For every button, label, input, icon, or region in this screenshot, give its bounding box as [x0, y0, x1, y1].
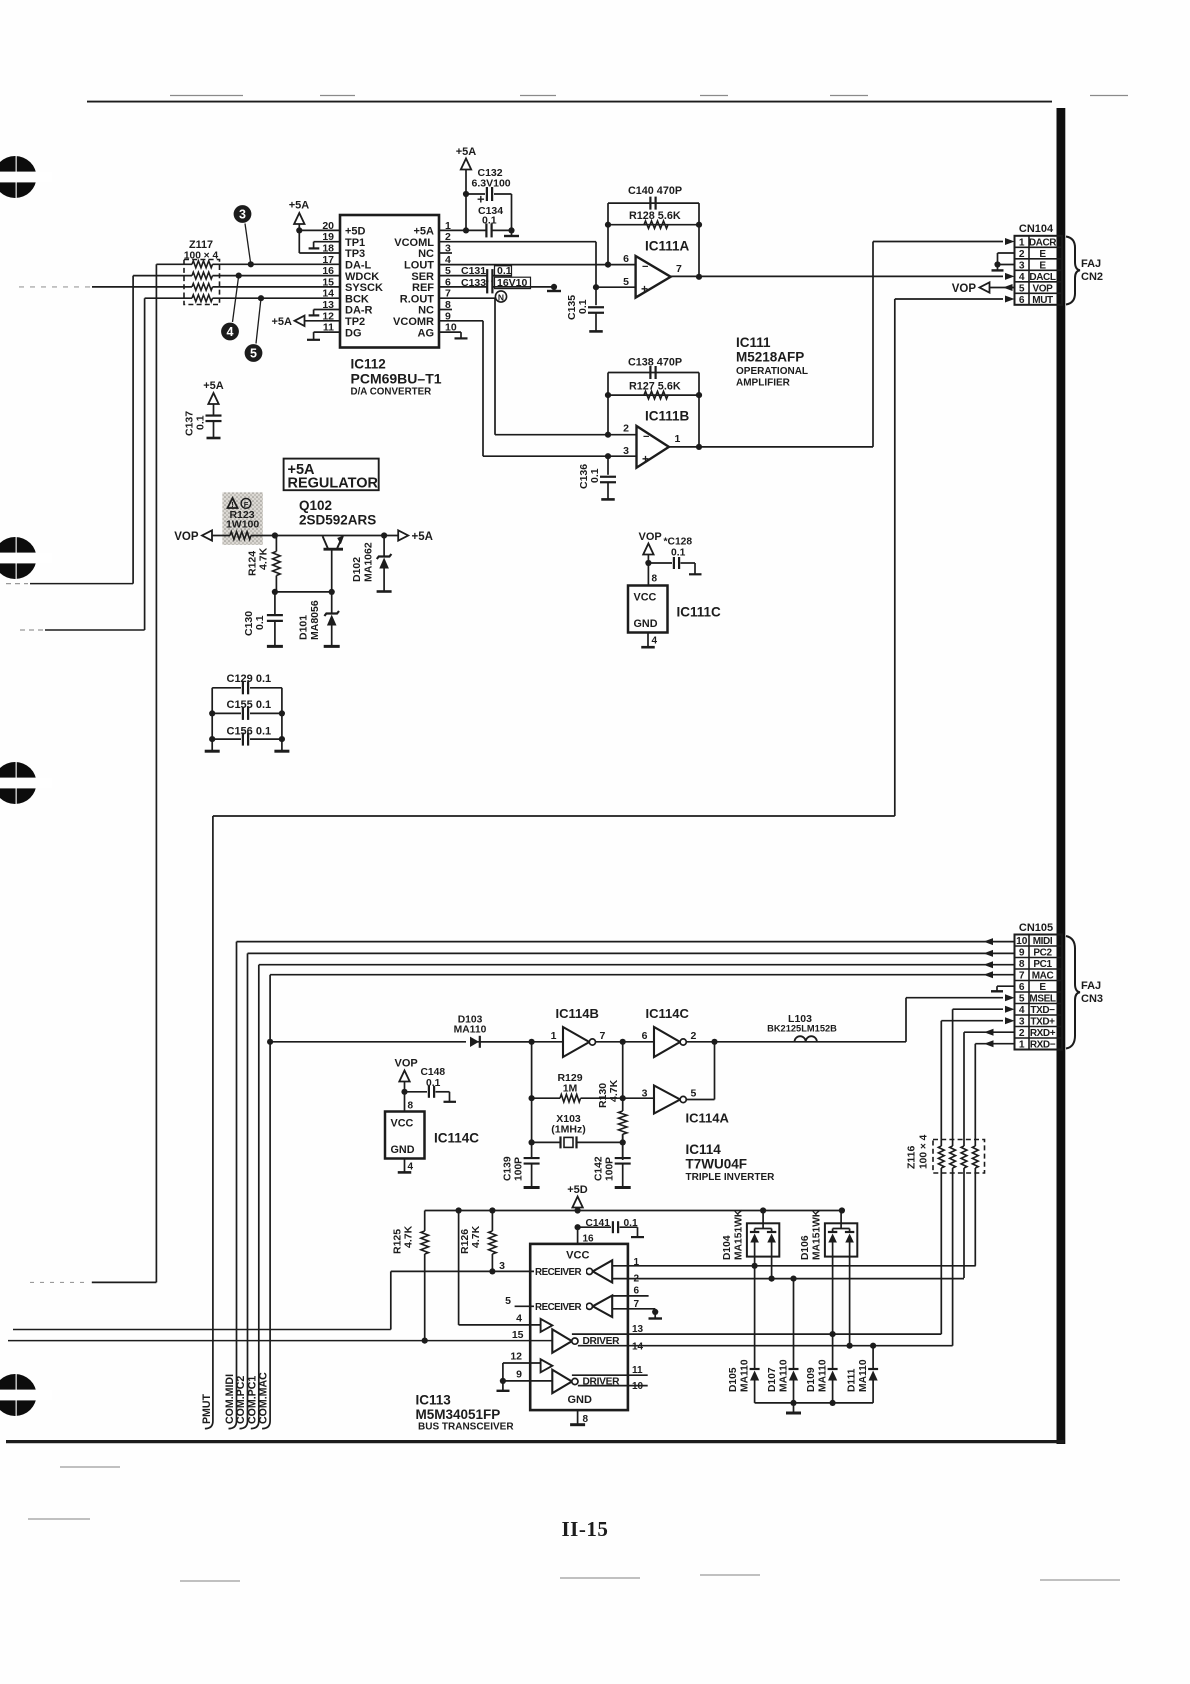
svg-text:0.1: 0.1 [482, 215, 497, 227]
svg-text:Z117: Z117 [189, 239, 213, 251]
svg-text:BUS TRANSCEIVER: BUS TRANSCEIVER [418, 1422, 514, 1433]
svg-text:3: 3 [499, 1260, 505, 1272]
svg-text:C131: C131 [461, 265, 486, 277]
svg-text:MA151WK: MA151WK [811, 1209, 822, 1260]
svg-text:0.1: 0.1 [254, 615, 266, 630]
svg-text:Q102: Q102 [299, 498, 332, 513]
svg-text:R128 5.6K: R128 5.6K [629, 210, 681, 222]
svg-text:T7WU04F: T7WU04F [686, 1157, 748, 1172]
svg-text:1: 1 [634, 1257, 640, 1268]
svg-text:4.7K: 4.7K [608, 1079, 620, 1102]
svg-text:IC111: IC111 [736, 335, 771, 350]
svg-text:PMUT: PMUT [201, 1393, 213, 1424]
svg-text:N: N [498, 292, 504, 302]
svg-text:C139: C139 [503, 1156, 514, 1181]
svg-text:MA110: MA110 [818, 1359, 829, 1392]
svg-text:5: 5 [250, 347, 257, 361]
svg-text:100P: 100P [514, 1157, 525, 1181]
svg-text:C141: C141 [586, 1218, 611, 1229]
svg-text:0.1: 0.1 [589, 468, 601, 483]
svg-text:IC112: IC112 [351, 357, 386, 372]
svg-text:8: 8 [408, 1101, 414, 1112]
svg-text:9: 9 [1019, 948, 1025, 959]
svg-text:IC111C: IC111C [677, 605, 722, 620]
svg-text:7: 7 [676, 263, 682, 275]
svg-text:5: 5 [1019, 994, 1025, 1005]
svg-text:CN104: CN104 [1019, 223, 1054, 235]
svg-text:MA110: MA110 [454, 1025, 487, 1036]
svg-text:DACL: DACL [1029, 272, 1055, 283]
svg-text:VCC: VCC [391, 1118, 414, 1130]
svg-text:4: 4 [1019, 1005, 1025, 1016]
svg-text:TXD+: TXD+ [1030, 1017, 1055, 1028]
svg-text:D/A CONVERTER: D/A CONVERTER [351, 387, 432, 398]
svg-text:4: 4 [652, 636, 658, 647]
svg-text:D109: D109 [806, 1367, 817, 1392]
svg-text:TP3: TP3 [345, 248, 365, 260]
svg-text:+5A: +5A [412, 531, 433, 543]
svg-text:VCOML: VCOML [394, 237, 434, 249]
svg-text:MA1062: MA1062 [363, 542, 375, 582]
svg-text:3: 3 [642, 1088, 648, 1100]
svg-text:IC114C: IC114C [434, 1131, 479, 1146]
svg-text:2SD592ARS: 2SD592ARS [299, 513, 376, 528]
svg-text:DACR: DACR [1029, 237, 1057, 248]
svg-text:6: 6 [1019, 295, 1025, 306]
svg-text:1W100: 1W100 [226, 519, 259, 531]
svg-text:GND: GND [634, 618, 658, 630]
svg-text:MIDI: MIDI [1033, 936, 1053, 947]
svg-text:VCC: VCC [634, 592, 657, 604]
svg-text:TXD−: TXD− [1030, 1005, 1055, 1016]
svg-text:PCM69BU–T1: PCM69BU–T1 [351, 371, 442, 387]
svg-text:10: 10 [632, 1381, 644, 1392]
svg-text:+: + [641, 282, 648, 296]
svg-text:VCC: VCC [566, 1250, 589, 1262]
svg-text:R127 5.6K: R127 5.6K [629, 381, 681, 393]
svg-text:1: 1 [1019, 1040, 1025, 1051]
svg-text:LOUT: LOUT [404, 260, 434, 272]
svg-text:8: 8 [1019, 959, 1025, 970]
svg-text:COM.PC2: COM.PC2 [235, 1376, 247, 1424]
svg-text:F: F [244, 500, 249, 509]
svg-text:(1MHz): (1MHz) [551, 1124, 585, 1136]
svg-text:14: 14 [632, 1341, 644, 1352]
svg-text:IC113: IC113 [416, 1393, 452, 1408]
svg-text:M5218AFP: M5218AFP [736, 350, 804, 365]
svg-text:6: 6 [634, 1286, 640, 1297]
svg-text:7: 7 [1019, 971, 1025, 982]
svg-text:6.3V100: 6.3V100 [472, 178, 511, 190]
svg-text:D105: D105 [728, 1367, 739, 1392]
svg-text:15: 15 [512, 1329, 524, 1341]
svg-text:5: 5 [691, 1088, 697, 1100]
svg-text:C140 470P: C140 470P [628, 185, 682, 197]
svg-text:+5A: +5A [272, 316, 293, 328]
svg-text:+5D: +5D [567, 1184, 588, 1196]
svg-text:MA110: MA110 [858, 1359, 869, 1392]
svg-text:OPERATIONAL: OPERATIONAL [736, 366, 808, 377]
svg-text:+5A: +5A [414, 226, 435, 238]
svg-text:MA151WK: MA151WK [733, 1209, 744, 1260]
svg-text:4: 4 [227, 325, 234, 339]
svg-text:+: + [642, 452, 649, 466]
svg-text:*C128: *C128 [664, 537, 693, 548]
svg-text:−: − [642, 261, 648, 273]
svg-text:D101: D101 [298, 615, 310, 640]
svg-text:MUT: MUT [1032, 295, 1053, 306]
svg-text:−: − [643, 431, 649, 443]
svg-text:VCOMR: VCOMR [393, 316, 434, 328]
svg-text:3: 3 [623, 445, 629, 457]
svg-text:3: 3 [239, 208, 246, 222]
svg-text:4: 4 [516, 1313, 522, 1325]
svg-text:RECEIVER: RECEIVER [535, 1267, 582, 1278]
svg-text:TP1: TP1 [345, 237, 365, 249]
svg-text:IC111A: IC111A [645, 239, 690, 254]
svg-text:4: 4 [1019, 272, 1025, 283]
svg-text:RXD−: RXD− [1030, 1040, 1056, 1051]
svg-text:DG: DG [345, 327, 362, 339]
svg-text:+5D: +5D [345, 226, 366, 238]
svg-text:3: 3 [1019, 260, 1025, 271]
svg-text:MA8056: MA8056 [309, 600, 321, 640]
svg-text:GND: GND [391, 1144, 415, 1156]
svg-text:WDCK: WDCK [345, 271, 379, 283]
svg-text:+5A: +5A [456, 146, 477, 158]
svg-text:+5A: +5A [203, 380, 224, 392]
svg-text:GND: GND [567, 1394, 592, 1406]
svg-text:3: 3 [1019, 1017, 1025, 1028]
svg-text:1: 1 [1019, 237, 1025, 248]
svg-text:DA-L: DA-L [345, 260, 372, 272]
svg-text:16V10: 16V10 [497, 277, 528, 289]
svg-text:C148: C148 [421, 1067, 446, 1078]
svg-text:VOP: VOP [174, 531, 199, 543]
svg-text:VOP: VOP [1033, 283, 1054, 294]
svg-text:BK2125LM152B: BK2125LM152B [767, 1024, 837, 1034]
svg-text:2: 2 [623, 423, 629, 435]
svg-text:MA110: MA110 [740, 1359, 751, 1392]
svg-text:NC: NC [418, 305, 434, 317]
svg-text:COM.MAC: COM.MAC [258, 1372, 270, 1424]
svg-text:AMPLIFIER: AMPLIFIER [736, 378, 791, 389]
svg-text:C138 470P: C138 470P [628, 357, 682, 369]
svg-text:II-15: II-15 [562, 1517, 609, 1541]
svg-text:IC114C: IC114C [646, 1006, 690, 1021]
svg-text:M5M34051FP: M5M34051FP [416, 1407, 501, 1422]
svg-text:2: 2 [1019, 1028, 1025, 1039]
svg-text:Z116: Z116 [906, 1145, 918, 1169]
svg-text:RXD+: RXD+ [1030, 1028, 1056, 1039]
svg-text:D111: D111 [847, 1368, 858, 1392]
svg-text:E: E [1039, 249, 1046, 260]
svg-text:100 × 4: 100 × 4 [919, 1134, 930, 1169]
svg-text:0.1: 0.1 [195, 415, 207, 430]
svg-text:E: E [1039, 982, 1046, 993]
svg-text:2: 2 [1019, 249, 1025, 260]
svg-text:13: 13 [632, 1324, 644, 1335]
svg-text:FAJ: FAJ [1081, 980, 1101, 992]
svg-text:TP2: TP2 [345, 316, 365, 328]
svg-text:RECEIVER: RECEIVER [535, 1302, 582, 1313]
svg-text:D107: D107 [767, 1367, 778, 1392]
svg-text:1M: 1M [563, 1083, 578, 1095]
svg-text:5: 5 [623, 276, 629, 288]
svg-text:5: 5 [505, 1295, 511, 1307]
svg-text:4: 4 [408, 1162, 414, 1173]
svg-text:100P: 100P [605, 1157, 616, 1181]
svg-text:NC: NC [418, 248, 434, 260]
svg-text:MA110: MA110 [779, 1359, 790, 1392]
svg-text:10: 10 [1016, 936, 1028, 947]
svg-text:9: 9 [516, 1369, 522, 1381]
svg-text:IC114B: IC114B [556, 1006, 599, 1021]
svg-text:2: 2 [634, 1274, 640, 1285]
svg-text:IC114A: IC114A [686, 1111, 730, 1126]
svg-text:IC114: IC114 [686, 1142, 722, 1157]
svg-text:MAC: MAC [1032, 971, 1054, 982]
svg-text:8: 8 [652, 574, 658, 585]
svg-text:11: 11 [632, 1365, 643, 1376]
svg-text:SER: SER [411, 271, 434, 283]
svg-text:BCK: BCK [345, 293, 369, 305]
svg-text:C142: C142 [594, 1156, 605, 1181]
svg-text:0.1: 0.1 [577, 299, 589, 314]
svg-text:4.7K: 4.7K [403, 1225, 415, 1248]
svg-text:COM.PC1: COM.PC1 [246, 1376, 258, 1424]
svg-text:D102: D102 [351, 557, 363, 582]
svg-text:5: 5 [1019, 283, 1025, 294]
svg-text:0.1: 0.1 [671, 548, 686, 559]
svg-text:2: 2 [691, 1030, 697, 1042]
svg-text:7: 7 [634, 1299, 640, 1310]
svg-text:VOP: VOP [639, 531, 662, 543]
svg-text:7: 7 [600, 1030, 606, 1042]
svg-text:4.7K: 4.7K [258, 547, 270, 570]
svg-text:4.7K: 4.7K [470, 1225, 482, 1248]
svg-text:D106: D106 [800, 1235, 811, 1260]
svg-text:!: ! [231, 500, 234, 509]
svg-text:CN105: CN105 [1019, 922, 1053, 934]
svg-text:6: 6 [642, 1030, 648, 1042]
svg-text:6: 6 [1019, 982, 1025, 993]
svg-text:C133: C133 [461, 277, 486, 289]
svg-text:AG: AG [418, 327, 435, 339]
svg-text:VOP: VOP [395, 1058, 418, 1070]
svg-text:0.1: 0.1 [426, 1078, 441, 1089]
svg-text:0.1: 0.1 [624, 1218, 638, 1229]
svg-text:1: 1 [551, 1030, 557, 1042]
svg-text:PC2: PC2 [1033, 948, 1052, 959]
svg-text:SYSCK: SYSCK [345, 282, 383, 294]
svg-text:12: 12 [510, 1351, 522, 1363]
svg-text:REF: REF [412, 282, 434, 294]
svg-text:E: E [1039, 260, 1046, 271]
svg-text:R.OUT: R.OUT [400, 293, 435, 305]
svg-text:6: 6 [623, 253, 629, 265]
svg-text:D104: D104 [722, 1235, 733, 1260]
svg-text:DA-R: DA-R [345, 305, 373, 317]
svg-text:+5A: +5A [289, 200, 310, 212]
svg-text:REGULATOR: REGULATOR [288, 476, 379, 492]
svg-text:CN2: CN2 [1081, 271, 1103, 283]
svg-text:1: 1 [675, 433, 681, 445]
svg-text:PC1: PC1 [1033, 959, 1052, 970]
svg-text:IC111B: IC111B [645, 409, 690, 424]
svg-text:MSEL: MSEL [1029, 994, 1055, 1005]
svg-text:VOP: VOP [952, 283, 977, 295]
svg-text:TRIPLE INVERTER: TRIPLE INVERTER [686, 1172, 776, 1183]
svg-text:FAJ: FAJ [1081, 258, 1101, 270]
svg-text:CN3: CN3 [1081, 993, 1103, 1005]
